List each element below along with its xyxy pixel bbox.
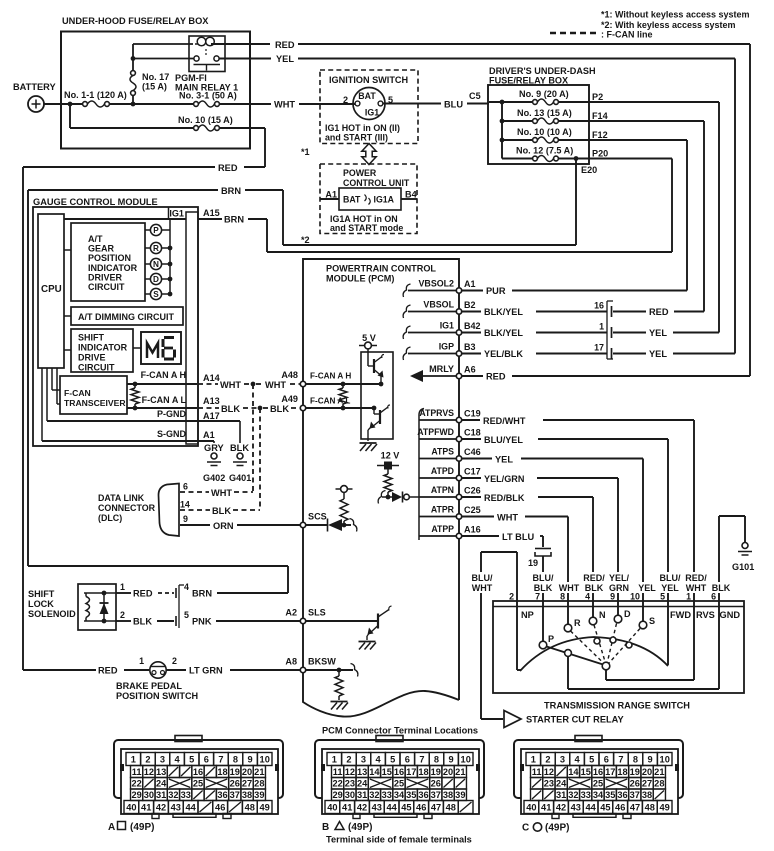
PCM pin C17 ATPD — [419, 466, 481, 478]
under-hood fuse/relay box — [61, 32, 250, 149]
svg-text:YEL: YEL — [649, 328, 667, 338]
svg-text:43: 43 — [171, 803, 181, 813]
wire WHT to ignition switch — [299, 103, 355, 105]
wire BRN solenoid feed — [217, 592, 288, 594]
svg-text:14: 14 — [180, 500, 190, 510]
rotor arm — [547, 647, 604, 665]
svg-text:46: 46 — [615, 803, 625, 813]
wire A13 BLK dashed — [198, 404, 300, 414]
svg-text:1: 1 — [686, 592, 691, 602]
svg-text:F-CAN A H: F-CAN A H — [141, 370, 186, 380]
svg-text:MRLY: MRLY — [429, 364, 454, 374]
contact R — [564, 606, 581, 632]
node battery feed junction — [68, 102, 73, 107]
svg-text:IGNITION SWITCH: IGNITION SWITCH — [329, 75, 408, 85]
svg-text:BLK: BLK — [270, 404, 289, 414]
svg-text:WHT: WHT — [265, 380, 286, 390]
svg-text:1: 1 — [131, 755, 136, 765]
svg-text:9: 9 — [648, 755, 653, 765]
svg-text:22: 22 — [332, 779, 342, 789]
svg-text:1: 1 — [599, 322, 604, 332]
ground F-CAN driver — [360, 442, 377, 444]
wire A14 WHT dashed — [198, 380, 300, 390]
svg-text:BLK: BLK — [221, 404, 240, 414]
fuse No.12 (7.5 A) — [502, 146, 589, 162]
fuse No.17 (15 A) — [130, 59, 169, 105]
svg-text:LT GRN: LT GRN — [189, 666, 223, 676]
wire WHT out of box — [219, 103, 271, 105]
svg-text:DRIVER'S UNDER-DASH: DRIVER'S UNDER-DASH — [489, 66, 596, 76]
svg-text:BLU/YEL: BLU/YEL — [484, 435, 523, 445]
svg-text:BLK: BLK — [212, 506, 231, 516]
wire RED down left side to brake switch — [23, 166, 215, 168]
svg-text:39: 39 — [455, 790, 465, 800]
wire BLK/YEL (VBSOL) — [462, 311, 481, 313]
svg-text:40: 40 — [526, 803, 536, 813]
A/T dimming circuit — [71, 307, 183, 325]
svg-text:8: 8 — [633, 755, 638, 765]
svg-text:39: 39 — [254, 790, 264, 800]
wire RED to brake switch — [23, 669, 96, 671]
ground G402 — [203, 453, 225, 483]
svg-text:C26: C26 — [464, 486, 481, 496]
svg-text:4: 4 — [376, 755, 382, 765]
powertrain control module (PCM) box — [303, 259, 459, 717]
svg-text:2: 2 — [172, 656, 177, 666]
svg-text:10: 10 — [461, 755, 471, 765]
svg-text:A/T DIMMING CIRCUIT: A/T DIMMING CIRCUIT — [78, 312, 174, 322]
svg-text:LOCK: LOCK — [28, 599, 54, 609]
link arrow between ignition switch and power control unit — [362, 144, 376, 165]
svg-text:*1: *1 — [301, 147, 310, 157]
NP contact wire and wafer arc — [517, 606, 668, 671]
rotor ground contact — [565, 650, 572, 657]
svg-text:N: N — [153, 260, 159, 269]
wire DLC BLK dashed — [180, 509, 210, 511]
fuse No.3-1 (50 A) — [179, 91, 237, 108]
wire F12 to VBSOL2 PUR — [589, 139, 687, 141]
svg-text:12 V: 12 V — [381, 451, 400, 461]
FWD contact wire — [667, 606, 669, 665]
svg-text:48: 48 — [446, 803, 456, 813]
wire fuse No.17 to relay contact — [133, 58, 194, 60]
svg-text:3: 3 — [560, 755, 565, 765]
svg-text:RED: RED — [649, 307, 669, 317]
svg-text:10: 10 — [630, 592, 640, 602]
svg-text:PGM-FI: PGM-FI — [175, 73, 207, 83]
svg-text:RED: RED — [98, 666, 118, 676]
PCM pin C25 ATPR — [419, 505, 481, 517]
svg-text:S-GND: S-GND — [157, 429, 187, 439]
svg-text:6: 6 — [604, 755, 609, 765]
svg-text:E20: E20 — [581, 165, 597, 175]
svg-text:15: 15 — [382, 767, 392, 777]
wire BLU ignition to under-dash box — [383, 103, 441, 105]
svg-text:F-CAN A L: F-CAN A L — [142, 395, 187, 405]
svg-text:No. 3-1 (50 A): No. 3-1 (50 A) — [179, 91, 237, 101]
svg-text:CONNECTOR: CONNECTOR — [98, 503, 156, 513]
svg-text:BLK/YEL: BLK/YEL — [484, 307, 523, 317]
svg-text:41: 41 — [342, 803, 352, 813]
wire to ground G401 — [239, 421, 241, 452]
svg-text:47: 47 — [630, 803, 640, 813]
wire CPU to dimming — [64, 315, 71, 317]
svg-text:No. 17: No. 17 — [142, 72, 169, 82]
svg-text:(49P): (49P) — [348, 822, 372, 833]
svg-text:A: A — [108, 822, 115, 833]
svg-text:11: 11 — [333, 767, 343, 777]
wire E20 drop — [575, 159, 577, 246]
F-CAN driver circuit box — [361, 349, 393, 441]
svg-text:38: 38 — [443, 790, 453, 800]
wire CPU to shift indicator — [64, 349, 71, 351]
svg-text:FUSE/RELAY BOX: FUSE/RELAY BOX — [489, 76, 568, 86]
svg-text:49: 49 — [659, 803, 669, 813]
svg-text:P20: P20 — [592, 149, 608, 159]
gauge connector strip — [186, 212, 198, 444]
svg-text:DRIVER: DRIVER — [88, 272, 123, 282]
svg-text:25: 25 — [394, 779, 404, 789]
wire LT GRN to BKSW — [167, 669, 187, 671]
svg-text:SLS: SLS — [308, 608, 326, 618]
CPU box — [38, 214, 64, 368]
svg-text:Terminal side of female termin: Terminal side of female terminals — [326, 835, 472, 845]
svg-text:5: 5 — [390, 755, 395, 765]
svg-text:46: 46 — [416, 803, 426, 813]
svg-text:IG1A: IG1A — [374, 195, 395, 205]
contact P — [539, 606, 554, 649]
svg-text:YEL/GRN: YEL/GRN — [484, 474, 524, 484]
svg-text:35: 35 — [406, 790, 416, 800]
svg-text:ATPS: ATPS — [431, 447, 454, 457]
svg-text:RED/: RED/ — [583, 573, 605, 583]
wire to ground G402 — [213, 441, 215, 452]
PCM connector C (49P) — [514, 736, 683, 819]
PCM pin B42 IG1 — [403, 321, 480, 340]
wire LT BLU (ATPP) — [462, 535, 499, 537]
svg-text:15: 15 — [581, 767, 591, 777]
svg-text:A16: A16 — [464, 525, 481, 535]
svg-text:6: 6 — [183, 482, 188, 492]
svg-text:31: 31 — [556, 790, 566, 800]
wire F-CAN A L inside PCM — [306, 407, 374, 409]
svg-text:24: 24 — [556, 779, 567, 789]
rotor pivot — [602, 662, 610, 670]
wire label RED/WHT (pin 1) — [683, 572, 709, 593]
wire F-CAN A H inside PCM — [306, 383, 381, 385]
wire dashed BLK drop to DLC — [259, 408, 261, 510]
svg-text:PCM Connector Terminal Locatio: PCM Connector Terminal Locations — [322, 726, 478, 736]
svg-text:MODULE (PCM): MODULE (PCM) — [326, 274, 394, 284]
wire YEL/BLK (IGP) — [462, 353, 481, 355]
svg-text:BLK/YEL: BLK/YEL — [484, 328, 523, 338]
wire YEL relay contact output — [219, 58, 271, 60]
svg-text:VBSOL2: VBSOL2 — [418, 279, 454, 289]
svg-text:29: 29 — [131, 790, 141, 800]
svg-text:R: R — [574, 618, 581, 628]
wire P20 to gauge IG1 BRN — [589, 158, 672, 160]
svg-text:41: 41 — [141, 803, 151, 813]
svg-text:16: 16 — [394, 767, 404, 777]
wire shift box to display — [133, 347, 141, 349]
svg-text:A15: A15 — [203, 208, 220, 218]
svg-text:B2: B2 — [464, 300, 476, 310]
svg-text:24: 24 — [156, 779, 167, 789]
starter cut relay arrow — [504, 711, 521, 728]
svg-text:POWER: POWER — [343, 168, 377, 178]
label C (49P) — [522, 823, 569, 834]
svg-text:9: 9 — [449, 755, 454, 765]
svg-text:7: 7 — [419, 755, 424, 765]
transmission range switch box — [493, 601, 744, 693]
svg-text:No. 10 (15 A): No. 10 (15 A) — [178, 115, 233, 125]
contact D — [614, 606, 631, 623]
svg-text:ATPN: ATPN — [431, 485, 454, 495]
label A (49P) — [108, 822, 154, 834]
svg-text:9: 9 — [610, 592, 615, 602]
svg-text:B42: B42 — [464, 321, 481, 331]
wire battery to fuse No.1-1 — [44, 103, 83, 105]
wire fuse bus — [501, 102, 503, 159]
fuse No.10 branch wire — [69, 104, 71, 128]
svg-text:A17: A17 — [203, 411, 220, 421]
svg-text:36: 36 — [217, 790, 227, 800]
gear position indicator lamps P R N D S — [145, 219, 172, 300]
svg-text:A13: A13 — [203, 396, 220, 406]
svg-text:IG1: IG1 — [169, 209, 184, 219]
svg-text:35: 35 — [605, 790, 615, 800]
svg-text:36: 36 — [418, 790, 428, 800]
svg-text:4: 4 — [585, 592, 590, 602]
svg-text:G401: G401 — [229, 473, 251, 483]
battery — [13, 82, 56, 112]
svg-text:1: 1 — [139, 656, 144, 666]
fuse No.9 (20 A) — [489, 89, 589, 105]
rotor alternate positions dashed — [571, 624, 641, 664]
svg-text:CPU: CPU — [41, 284, 62, 295]
svg-text:21: 21 — [455, 767, 465, 777]
svg-text:FWD: FWD — [670, 610, 691, 620]
svg-text:14: 14 — [568, 767, 579, 777]
svg-text:47: 47 — [431, 803, 441, 813]
svg-text:42: 42 — [156, 803, 166, 813]
svg-text:20: 20 — [242, 767, 252, 777]
svg-text:C46: C46 — [464, 447, 481, 457]
svg-text:14: 14 — [369, 767, 380, 777]
ignition switch box — [320, 70, 418, 144]
wire F-CAN A L — [127, 407, 197, 409]
svg-text:8: 8 — [560, 592, 565, 602]
IG1 cell divider — [168, 207, 170, 219]
svg-text:A48: A48 — [281, 370, 298, 380]
svg-text:: F-CAN line: : F-CAN line — [601, 30, 653, 40]
diode to ATPN — [392, 492, 402, 502]
svg-text:(49P): (49P) — [545, 823, 569, 834]
svg-text:2: 2 — [509, 592, 514, 602]
svg-text:5: 5 — [189, 755, 194, 765]
svg-text:BAT: BAT — [343, 195, 361, 205]
ground G101 — [732, 543, 754, 573]
svg-text:No. 10 (10 A): No. 10 (10 A) — [517, 127, 572, 137]
svg-text:F-CAN: F-CAN — [64, 388, 91, 398]
contact S — [639, 606, 655, 629]
svg-text:43: 43 — [372, 803, 382, 813]
svg-text:30: 30 — [144, 790, 154, 800]
svg-text:17: 17 — [605, 767, 615, 777]
svg-text:SHIFT: SHIFT — [28, 589, 55, 599]
svg-text:IG1 HOT in ON (II): IG1 HOT in ON (II) — [325, 123, 400, 133]
svg-text:POWERTRAIN CONTROL: POWERTRAIN CONTROL — [326, 264, 436, 274]
svg-text:A6: A6 — [464, 365, 476, 375]
svg-text:46: 46 — [215, 803, 225, 813]
resistor F-CAN terminator (gauge) — [131, 382, 139, 411]
svg-text:SOLENOID: SOLENOID — [28, 609, 76, 619]
svg-text:YEL: YEL — [638, 583, 656, 593]
svg-text:PNK: PNK — [192, 617, 212, 627]
svg-text:44: 44 — [386, 803, 397, 813]
PCM connector B (49P) — [315, 736, 484, 819]
svg-text:*2: With keyless access system: *2: With keyless access system — [601, 20, 736, 30]
svg-text:13: 13 — [156, 767, 166, 777]
svg-text:B4: B4 — [405, 190, 418, 200]
svg-text:C17: C17 — [464, 467, 481, 477]
svg-text:C: C — [522, 823, 529, 834]
svg-text:BLU/: BLU/ — [472, 573, 493, 583]
node relay feed junction — [131, 56, 136, 61]
svg-text:P2: P2 — [592, 92, 603, 102]
inline connector 19 — [528, 549, 551, 569]
svg-text:27: 27 — [242, 779, 252, 789]
wire dashed WHT drop to DLC — [252, 384, 254, 492]
fuse No.13 (15 A) — [502, 108, 589, 124]
legend F-CAN dashed line sample — [550, 32, 598, 35]
wire E20 BRN to shift lock solenoid — [283, 244, 576, 246]
svg-text:GAUGE CONTROL MODULE: GAUGE CONTROL MODULE — [33, 197, 158, 207]
svg-text:YEL: YEL — [495, 455, 513, 465]
svg-text:7: 7 — [218, 755, 223, 765]
BKSW pull resistor — [306, 664, 358, 710]
svg-text:A49: A49 — [281, 394, 298, 404]
svg-text:6: 6 — [405, 755, 410, 765]
svg-text:and START (III): and START (III) — [325, 133, 388, 143]
svg-text:32: 32 — [568, 790, 578, 800]
svg-text:C5: C5 — [469, 91, 481, 101]
svg-text:CIRCUIT: CIRCUIT — [88, 282, 125, 292]
svg-text:48: 48 — [245, 803, 255, 813]
svg-text:YEL/: YEL/ — [609, 573, 630, 583]
svg-text:RED/WHT: RED/WHT — [483, 416, 526, 426]
svg-text:45: 45 — [600, 803, 610, 813]
svg-text:2: 2 — [346, 755, 351, 765]
svg-text:ATPRVS: ATPRVS — [419, 408, 454, 418]
svg-text:23: 23 — [345, 779, 355, 789]
svg-text:17: 17 — [594, 343, 604, 353]
wire fuse No.10 output — [219, 127, 265, 129]
svg-text:TRANSMISSION RANGE SWITCH: TRANSMISSION RANGE SWITCH — [544, 701, 690, 711]
svg-text:12: 12 — [144, 767, 154, 777]
wire CPU to gear box — [64, 249, 71, 251]
wire label BLK (pin 6) — [711, 582, 731, 593]
svg-text:3: 3 — [361, 755, 366, 765]
data link connector (DLC) — [98, 484, 179, 537]
svg-text:WHT: WHT — [220, 380, 241, 390]
A/T gear position indicator driver circuit — [71, 223, 145, 301]
svg-text:D: D — [624, 609, 631, 619]
svg-text:R: R — [153, 244, 159, 253]
svg-text:19: 19 — [431, 767, 441, 777]
resistor F-CAN terminator (PCM) — [339, 382, 347, 411]
vertical wires to range switch — [693, 420, 695, 607]
svg-text:26: 26 — [431, 779, 441, 789]
svg-text:BLK: BLK — [230, 443, 249, 453]
svg-text:IGP: IGP — [439, 342, 454, 352]
svg-text:7: 7 — [535, 592, 540, 602]
fuse No.10 (10 A) under-dash — [502, 127, 589, 143]
svg-text:*1: Without keyless access sys: *1: Without keyless access system — [601, 10, 750, 20]
svg-text:10: 10 — [660, 755, 670, 765]
svg-text:SHIFT: SHIFT — [78, 333, 105, 343]
svg-text:41: 41 — [541, 803, 551, 813]
svg-text:A/T: A/T — [88, 234, 103, 244]
svg-text:(49P): (49P) — [130, 822, 154, 833]
svg-text:BLU/: BLU/ — [533, 573, 554, 583]
svg-text:8: 8 — [233, 755, 238, 765]
PGM-FI main relay 1 — [175, 36, 238, 93]
wire RED relay coil output — [211, 43, 270, 45]
svg-text:12: 12 — [544, 767, 554, 777]
svg-text:BLK: BLK — [133, 617, 152, 627]
svg-text:C25: C25 — [464, 505, 481, 515]
wire A15 BRN gauge feed — [198, 218, 222, 220]
svg-text:YEL: YEL — [649, 349, 667, 359]
label B (49P) — [322, 822, 372, 834]
F-CAN transceiver — [60, 376, 127, 414]
svg-text:28: 28 — [254, 779, 264, 789]
svg-text:S: S — [649, 616, 655, 626]
svg-text:32: 32 — [369, 790, 379, 800]
svg-text:34: 34 — [593, 790, 604, 800]
svg-text:IG1: IG1 — [365, 108, 379, 118]
wire WHT (ATPR) — [462, 516, 494, 518]
svg-text:RED: RED — [133, 589, 153, 599]
fuse No.10 (15 A) — [178, 115, 233, 131]
svg-text:48: 48 — [645, 803, 655, 813]
svg-text:INDICATOR: INDICATOR — [88, 263, 138, 273]
svg-text:30: 30 — [345, 790, 355, 800]
PCM pin C46 ATPS — [419, 447, 481, 459]
svg-text:28: 28 — [654, 779, 664, 789]
svg-text:BLU: BLU — [444, 100, 463, 110]
svg-text:C19: C19 — [464, 409, 481, 419]
wire YEL (ATPS) — [462, 458, 492, 460]
SCS circuit — [306, 486, 357, 532]
svg-text:RED: RED — [486, 372, 506, 382]
svg-text:45: 45 — [401, 803, 411, 813]
svg-text:16: 16 — [193, 767, 203, 777]
svg-text:(DLC): (DLC) — [98, 513, 122, 523]
wire LT BLU drop — [542, 536, 544, 547]
PCM left edge pin circles — [300, 381, 305, 386]
svg-text:4: 4 — [184, 582, 189, 592]
svg-text:POSITION: POSITION — [88, 253, 131, 263]
svg-text:5: 5 — [184, 610, 189, 620]
svg-text:SCS: SCS — [308, 512, 327, 522]
svg-text:S: S — [153, 290, 159, 299]
svg-text:BRAKE PEDAL: BRAKE PEDAL — [116, 681, 182, 691]
svg-text:GND: GND — [720, 610, 741, 620]
svg-text:RED: RED — [275, 40, 295, 50]
svg-text:1: 1 — [120, 582, 125, 592]
